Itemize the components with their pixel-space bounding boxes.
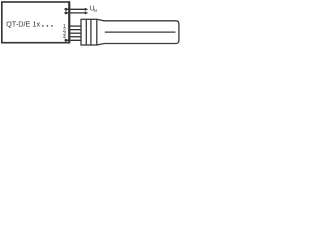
label dot 1: [42, 25, 43, 26]
lamp base rib B: [90, 19, 92, 45]
mains line L with arrow: [65, 8, 89, 11]
svg-text:N: N: [94, 8, 97, 13]
background: [0, 0, 180, 49]
label dot 3: [51, 25, 52, 26]
label dot 2: [47, 25, 48, 26]
label U_N: [90, 6, 97, 13]
mains line N with arrow: [65, 11, 89, 14]
lamp base rib A: [85, 19, 87, 45]
lamp wire 4: [69, 36, 81, 38]
lamp base outline: [81, 19, 97, 45]
ECG box QT-D/E: [2, 2, 70, 43]
earth wire with terminal dot: [65, 39, 82, 42]
lamp wire 3: [69, 32, 81, 34]
lamp wire 2: [69, 29, 81, 31]
lamp tube outline: [97, 19, 179, 45]
lamp wire 1: [69, 25, 81, 27]
svg-text:QT-D/E 1x: QT-D/E 1x: [6, 20, 40, 29]
lamp tube fold line: [105, 31, 176, 33]
terminal bar on box right edge: [68, 2, 70, 43]
